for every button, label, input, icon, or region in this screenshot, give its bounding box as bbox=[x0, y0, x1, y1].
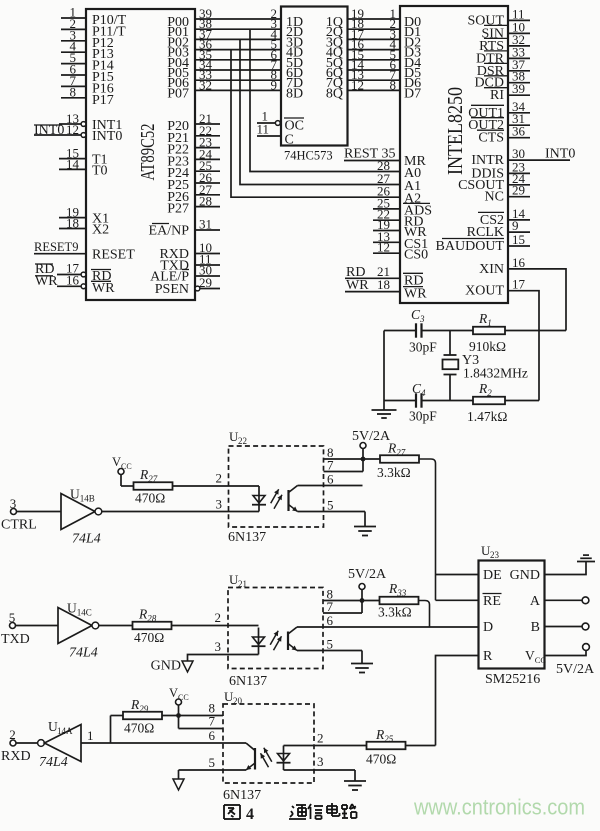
svg-text:8: 8 bbox=[390, 77, 397, 92]
svg-text:RESET9: RESET9 bbox=[34, 240, 78, 254]
svg-text:3.3kΩ: 3.3kΩ bbox=[377, 465, 411, 480]
svg-text:3.3kΩ: 3.3kΩ bbox=[378, 605, 412, 620]
svg-text:6N137: 6N137 bbox=[229, 674, 267, 689]
svg-text:X2: X2 bbox=[92, 223, 109, 238]
svg-text:6: 6 bbox=[209, 728, 216, 743]
svg-text:21: 21 bbox=[238, 579, 247, 589]
svg-text:12: 12 bbox=[66, 122, 79, 137]
svg-text:3: 3 bbox=[10, 496, 17, 511]
svg-text:470Ω: 470Ω bbox=[134, 630, 164, 645]
svg-text:74L4: 74L4 bbox=[39, 755, 68, 770]
svg-text:CTS: CTS bbox=[478, 131, 504, 146]
svg-text:6: 6 bbox=[327, 613, 334, 628]
svg-text:74L4: 74L4 bbox=[72, 532, 101, 547]
svg-text:16: 16 bbox=[512, 255, 526, 270]
svg-text:4: 4 bbox=[246, 806, 254, 823]
svg-text:CTRL: CTRL bbox=[1, 518, 37, 533]
svg-text:470Ω: 470Ω bbox=[124, 721, 154, 736]
svg-text:7: 7 bbox=[327, 599, 334, 614]
svg-text:74HC573: 74HC573 bbox=[284, 149, 333, 163]
svg-text:17: 17 bbox=[512, 277, 526, 292]
svg-text:P17: P17 bbox=[92, 93, 114, 108]
svg-text:RXD: RXD bbox=[1, 749, 31, 764]
svg-text:18: 18 bbox=[377, 277, 390, 292]
svg-text:9: 9 bbox=[512, 218, 519, 233]
svg-text:DE: DE bbox=[483, 568, 502, 583]
svg-text:6N137: 6N137 bbox=[228, 530, 266, 545]
svg-text:INTEL8250: INTEL8250 bbox=[443, 87, 467, 175]
svg-text:11: 11 bbox=[256, 122, 269, 137]
svg-text:D7: D7 bbox=[404, 86, 421, 101]
svg-text:WR: WR bbox=[404, 287, 427, 302]
svg-text:8Q: 8Q bbox=[326, 86, 343, 101]
svg-text:C: C bbox=[285, 133, 294, 148]
svg-text:910kΩ: 910kΩ bbox=[469, 339, 506, 354]
svg-text:www.cntronics.com: www.cntronics.com bbox=[413, 795, 585, 820]
svg-text:BAUDOUT: BAUDOUT bbox=[436, 239, 505, 254]
svg-text:1: 1 bbox=[87, 728, 94, 743]
svg-text:3: 3 bbox=[216, 497, 223, 512]
svg-text:3: 3 bbox=[215, 639, 222, 654]
svg-text:74L4: 74L4 bbox=[69, 646, 98, 661]
svg-text:SM25216: SM25216 bbox=[485, 672, 540, 687]
svg-text:GND: GND bbox=[151, 659, 181, 674]
svg-text:P27: P27 bbox=[167, 202, 189, 217]
svg-text:T0: T0 bbox=[92, 163, 108, 178]
svg-text:2: 2 bbox=[317, 731, 324, 746]
svg-text:NC: NC bbox=[485, 190, 504, 205]
svg-text:3: 3 bbox=[317, 754, 324, 769]
svg-text:RESET: RESET bbox=[92, 248, 135, 263]
svg-text:5V/2A: 5V/2A bbox=[352, 429, 391, 444]
svg-text:AT89C52: AT89C52 bbox=[137, 124, 159, 181]
svg-text:6N137: 6N137 bbox=[223, 788, 261, 803]
svg-text:18: 18 bbox=[66, 216, 79, 231]
svg-text:1.8432MHz: 1.8432MHz bbox=[463, 366, 528, 381]
svg-text:WR: WR bbox=[92, 281, 115, 296]
svg-text:XIN: XIN bbox=[479, 262, 504, 277]
svg-text:7: 7 bbox=[327, 458, 334, 473]
svg-text:15: 15 bbox=[512, 232, 525, 247]
svg-text:20: 20 bbox=[233, 696, 243, 706]
svg-text:RI: RI bbox=[490, 88, 504, 103]
svg-text:8D: 8D bbox=[286, 86, 303, 101]
svg-text:R: R bbox=[483, 649, 493, 664]
svg-text:5V/2A: 5V/2A bbox=[348, 567, 387, 582]
svg-text:36: 36 bbox=[512, 124, 526, 139]
svg-text:INT0: INT0 bbox=[92, 129, 122, 144]
svg-text:XOUT: XOUT bbox=[465, 284, 504, 299]
svg-text:INT0: INT0 bbox=[545, 147, 575, 162]
svg-text:2: 2 bbox=[215, 610, 222, 625]
svg-text:5: 5 bbox=[209, 755, 216, 770]
svg-text:30pF: 30pF bbox=[409, 409, 437, 424]
svg-text:2: 2 bbox=[9, 727, 16, 742]
svg-text:22: 22 bbox=[238, 436, 247, 446]
svg-text:EA/NP: EA/NP bbox=[149, 224, 190, 239]
svg-text:7: 7 bbox=[209, 714, 216, 729]
svg-text:RE: RE bbox=[483, 594, 501, 609]
svg-text:16: 16 bbox=[66, 272, 80, 287]
svg-text:B: B bbox=[531, 620, 540, 635]
svg-text:470Ω: 470Ω bbox=[366, 752, 396, 767]
svg-text:2: 2 bbox=[216, 471, 223, 486]
svg-text:OC: OC bbox=[285, 119, 304, 134]
svg-text:12: 12 bbox=[377, 240, 390, 255]
svg-text:5: 5 bbox=[327, 498, 334, 513]
svg-text:12: 12 bbox=[351, 77, 364, 92]
svg-text:TXD: TXD bbox=[1, 632, 30, 647]
svg-text:39: 39 bbox=[512, 81, 525, 96]
svg-text:P07: P07 bbox=[167, 86, 189, 101]
svg-text:A: A bbox=[530, 594, 541, 609]
svg-text:29: 29 bbox=[512, 183, 525, 198]
svg-text:8: 8 bbox=[70, 84, 77, 99]
svg-text:23: 23 bbox=[490, 550, 500, 560]
svg-text:5: 5 bbox=[327, 637, 334, 652]
svg-text:5: 5 bbox=[9, 610, 16, 625]
svg-text:PSEN: PSEN bbox=[155, 282, 189, 297]
svg-text:5V/2A: 5V/2A bbox=[556, 662, 595, 677]
svg-text:WR: WR bbox=[346, 278, 369, 293]
svg-text:D: D bbox=[483, 620, 493, 635]
svg-text:6: 6 bbox=[327, 472, 334, 487]
svg-text:470Ω: 470Ω bbox=[135, 491, 165, 506]
svg-text:CS0: CS0 bbox=[404, 248, 428, 263]
svg-text:14A: 14A bbox=[57, 726, 73, 736]
svg-text:1.47kΩ: 1.47kΩ bbox=[467, 409, 507, 424]
svg-text:9: 9 bbox=[271, 77, 278, 92]
svg-text:GND: GND bbox=[510, 568, 540, 583]
svg-text:30pF: 30pF bbox=[409, 340, 437, 355]
svg-text:14: 14 bbox=[66, 156, 80, 171]
